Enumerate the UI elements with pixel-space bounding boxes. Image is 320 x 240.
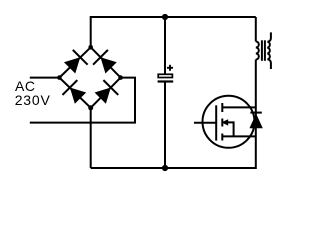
MOSFET Q1 channel middle segment xyxy=(221,119,223,127)
bridge rectifier diode D3 (bottom-left edge, pointing to left vertex) xyxy=(62,80,87,105)
wire bridge edge top-left xyxy=(59,47,90,77)
MOSFET Q1 channel bottom segment xyxy=(221,134,223,141)
wire AC terminal 1 xyxy=(30,77,60,79)
transformer T1 core xyxy=(262,40,265,61)
transformer T1 primary winding xyxy=(256,42,259,60)
node dot bridge right vertex xyxy=(118,75,123,80)
MOSFET Q1 source lead xyxy=(222,135,256,137)
wire right rail transformer to bottom rail xyxy=(91,60,256,169)
node dot bridge bottom vertex xyxy=(88,105,93,110)
wire bridge bottom vertical xyxy=(90,108,92,168)
wire top rail xyxy=(91,17,256,47)
freewheel diode D5 cathode bar xyxy=(250,112,261,114)
wire capacitor branch bottom xyxy=(164,83,166,169)
MOSFET Q1 body circle xyxy=(203,96,255,148)
wire AC terminal 2 xyxy=(30,78,135,123)
transformer T1 secondary winding xyxy=(267,32,271,69)
capacitor C1 positive plate (boxed) xyxy=(158,74,172,77)
wire bridge edge bottom-left xyxy=(59,78,90,108)
wire right rail down to transformer xyxy=(255,17,257,42)
freewheel diode D5 triangle xyxy=(249,114,262,129)
node dot bottom rail / capacitor junction xyxy=(162,165,168,171)
wire capacitor branch top xyxy=(164,17,166,74)
node dot top rail / capacitor junction xyxy=(162,14,168,20)
wire bridge edge top-right xyxy=(91,47,121,77)
bridge rectifier diode D4 (bottom-right edge, pointing to right vertex) xyxy=(93,80,118,105)
MOSFET Q1 drain lead xyxy=(222,106,256,108)
bridge rectifier diode D1 (left-top edge, pointing to top vertex) xyxy=(62,50,87,75)
MOSFET Q1 body arrow xyxy=(221,119,233,136)
MOSFET Q1 channel top segment xyxy=(221,103,223,112)
node dot bridge top vertex xyxy=(88,45,93,50)
node dot bridge left vertex xyxy=(57,75,62,80)
bridge rectifier diode D2 (right-top edge, pointing to top vertex) xyxy=(93,50,118,75)
MOSFET Q1 gate bar xyxy=(215,105,217,140)
capacitor C1 plus sign xyxy=(167,65,173,71)
capacitor C1 negative plate xyxy=(158,80,174,82)
MOSFET Q1 gate lead xyxy=(194,122,216,124)
wire bridge edge bottom-right xyxy=(91,78,121,108)
svg-text:230V: 230V xyxy=(15,92,51,108)
